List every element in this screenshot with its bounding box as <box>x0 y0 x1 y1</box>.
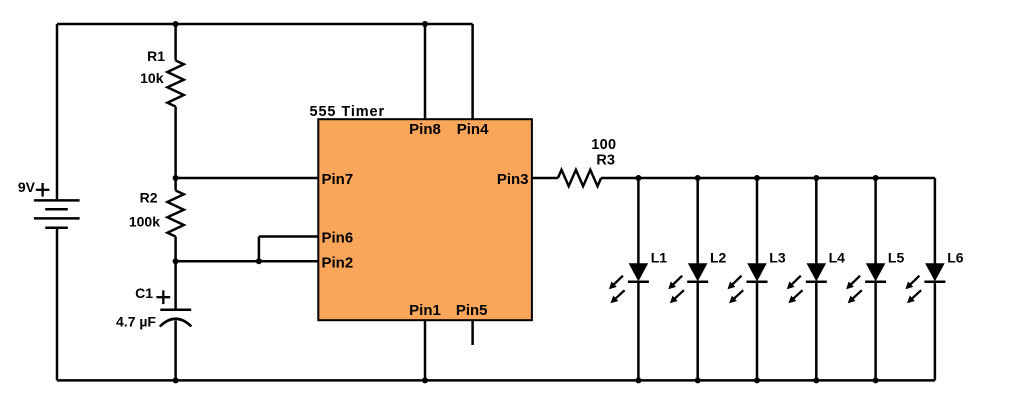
LED L6 triangle <box>925 263 945 281</box>
resistor R3 <box>558 170 601 186</box>
battery B1 plate short <box>45 208 68 211</box>
wire R3 to LED rail <box>601 177 935 180</box>
node junction LED rail / L5 <box>873 175 879 181</box>
wire Pin5 stub <box>471 320 474 345</box>
LED L6 light arrow upper <box>910 276 920 286</box>
wire battery positive to top rail <box>56 24 59 200</box>
LED L2 light arrow upper <box>672 276 682 286</box>
node junction LED rail / L2 <box>695 175 701 181</box>
LED L3 triangle <box>747 263 767 281</box>
svg-text:Pin8: Pin8 <box>409 121 441 138</box>
svg-text:C1: C1 <box>135 285 153 301</box>
node junction ground rail / L4 <box>813 377 819 383</box>
LED L5 cathode bar <box>865 281 886 284</box>
LED L3 light arrow upper <box>732 276 742 286</box>
node junction Pin6 tap on Pin2 wire <box>256 258 262 264</box>
wire battery negative to ground rail <box>56 228 59 381</box>
LED L5 light arrow lower <box>852 290 862 299</box>
wire LED rail to L3 anode <box>756 178 759 265</box>
wire LED rail to L2 anode <box>696 178 699 265</box>
wire C1 to ground rail <box>174 321 177 381</box>
svg-text:9V: 9V <box>18 179 36 195</box>
LED L1 light arrow lower <box>615 290 625 299</box>
LED L2 triangle <box>688 263 708 281</box>
svg-text:R2: R2 <box>140 189 158 205</box>
svg-text:100k: 100k <box>129 214 160 230</box>
battery B1 9V plate long top <box>34 199 80 202</box>
svg-text:4.7 µF: 4.7 µF <box>116 314 156 330</box>
node junction ground rail / L3 <box>754 377 760 383</box>
node junction ground/Pin1 <box>422 377 428 383</box>
LED L1 triangle <box>629 263 649 281</box>
battery B1 plate short bottom <box>45 227 68 230</box>
svg-text:L6: L6 <box>947 250 964 266</box>
capacitor C1 polarity plus sign <box>156 296 170 298</box>
svg-text:10k: 10k <box>140 70 164 86</box>
svg-text:L5: L5 <box>888 250 905 266</box>
LED L4 light arrow lower <box>793 290 803 299</box>
resistor R1 <box>167 61 183 107</box>
node junction R1/R2/Pin7 <box>173 175 179 181</box>
svg-text:Pin5: Pin5 <box>456 302 488 319</box>
node junction ground rail / L1 <box>635 377 641 383</box>
wire R1 to Pin7 node <box>174 107 177 179</box>
LED L3 cathode bar <box>747 281 768 284</box>
svg-text:Pin4: Pin4 <box>457 121 489 138</box>
svg-text:R3: R3 <box>596 153 615 169</box>
wire Pin6 <box>259 235 318 238</box>
node junction LED rail / L3 <box>754 175 760 181</box>
wire top Vcc rail <box>57 23 473 26</box>
svg-text:555 Timer: 555 Timer <box>310 104 386 120</box>
svg-text:R1: R1 <box>147 48 165 64</box>
wire Pin2 node to C1 <box>174 261 177 309</box>
LED L1 light arrow upper <box>613 276 623 286</box>
node junction top rail / R1 <box>173 21 179 27</box>
wire LED rail to L1 anode <box>637 178 640 265</box>
svg-text:L1: L1 <box>651 250 668 266</box>
wire L1 cathode to ground rail <box>637 282 640 381</box>
wire top rail to R1 <box>174 24 177 61</box>
wire Pin7 <box>176 177 319 180</box>
node junction LED rail / L4 <box>813 175 819 181</box>
svg-text:Pin2: Pin2 <box>322 255 354 272</box>
wire L3 cathode to ground rail <box>756 282 759 381</box>
wire LED rail to L6 anode <box>934 178 937 265</box>
LED L6 cathode bar <box>924 281 945 284</box>
wire Pin7 node to R2 <box>174 178 177 191</box>
wire Pin2 <box>176 260 319 263</box>
svg-text:100: 100 <box>591 137 616 153</box>
svg-text:L4: L4 <box>829 250 846 266</box>
wire Pin8 drop <box>424 24 427 119</box>
wire L5 cathode to ground rail <box>874 282 877 381</box>
LED L4 light arrow upper <box>791 276 801 286</box>
node junction R2/C1/Pin2 <box>173 258 179 264</box>
svg-text:L3: L3 <box>769 250 786 266</box>
node junction LED rail / L1 <box>635 175 641 181</box>
wire L6 cathode to ground rail <box>934 282 937 381</box>
node junction ground rail / L5 <box>873 377 879 383</box>
wire L2 cathode to ground rail <box>696 282 699 381</box>
wire Pin1 to ground rail <box>424 320 427 380</box>
wire bottom ground rail <box>57 379 935 382</box>
LED L2 light arrow lower <box>674 290 684 299</box>
node junction ground rail / L2 <box>695 377 701 383</box>
wire R2 to Pin2 node <box>174 237 177 262</box>
resistor R2 <box>167 191 183 237</box>
battery B1 plate long <box>34 217 80 220</box>
battery plus terminal sign <box>36 189 50 191</box>
svg-text:Pin3: Pin3 <box>497 171 529 188</box>
LED L4 triangle <box>807 263 827 281</box>
capacitor C1 top plate <box>160 308 191 311</box>
node junction top rail / Pin8 <box>422 21 428 27</box>
wire L4 cathode to ground rail <box>815 282 818 381</box>
wire Pin3 to R3 <box>532 177 558 180</box>
op-amp-style IC body U1 (555 timer) <box>318 119 532 320</box>
svg-text:Pin6: Pin6 <box>322 229 354 246</box>
svg-text:Pin7: Pin7 <box>322 171 354 188</box>
LED L2 cathode bar <box>687 281 708 284</box>
LED L1 cathode bar <box>628 281 649 284</box>
LED L3 light arrow lower <box>733 290 743 299</box>
node junction ground/C1 <box>173 377 179 383</box>
LED L5 triangle <box>866 263 886 281</box>
svg-text:Pin1: Pin1 <box>409 302 441 319</box>
LED L6 light arrow lower <box>911 290 921 299</box>
wire LED rail to L5 anode <box>874 178 877 265</box>
capacitor C1 curved bottom plate <box>160 319 192 327</box>
wire LED rail to L4 anode <box>815 178 818 265</box>
LED L4 cathode bar <box>806 281 827 284</box>
svg-text:L2: L2 <box>710 250 727 266</box>
wire Pin6 riser <box>258 237 261 262</box>
wire Pin4 drop <box>471 24 474 119</box>
LED L5 light arrow upper <box>850 276 860 286</box>
